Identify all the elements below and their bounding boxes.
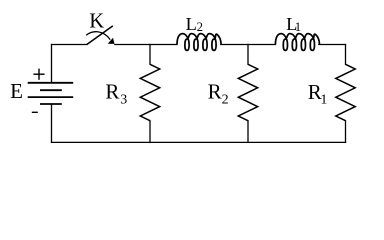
svg-text:L: L xyxy=(186,14,197,34)
svg-text:R: R xyxy=(105,80,119,104)
svg-text:1: 1 xyxy=(295,20,301,34)
svg-text:3: 3 xyxy=(120,92,127,107)
svg-text:2: 2 xyxy=(222,92,229,107)
svg-text:1: 1 xyxy=(320,92,327,107)
svg-text:E: E xyxy=(10,79,23,103)
svg-text:K: K xyxy=(89,11,104,33)
svg-text:2: 2 xyxy=(197,20,203,34)
svg-text:R: R xyxy=(208,80,222,104)
